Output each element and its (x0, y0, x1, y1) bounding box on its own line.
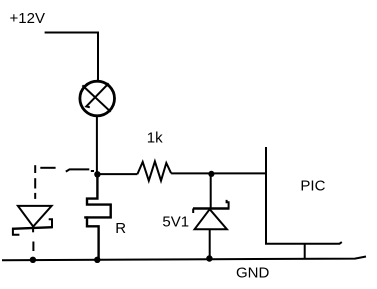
svg-text:1k: 1k (147, 130, 163, 147)
junction dot diode-ground (30, 257, 36, 263)
svg-text:5V1: 5V1 (162, 214, 189, 231)
zener diode D2 5V1 (193, 200, 230, 229)
junction dot zener-ground (206, 255, 212, 261)
wire node to resistor (97, 173, 137, 175)
svg-text:GND: GND (236, 265, 270, 282)
junction dot R-ground (94, 257, 100, 263)
dashed wire diode top (vertical) (34, 165, 36, 199)
diode lead stub (32, 227, 34, 233)
PIC block left edge (265, 147, 267, 244)
dashed wire diode to ground (32, 242, 34, 252)
wire +12V feed (45, 33, 98, 81)
node dot above zener (208, 171, 214, 177)
lamp L1 (80, 81, 115, 116)
PIC ground stub (304, 244, 306, 259)
svg-text:+12V: +12V (10, 10, 45, 27)
dashed wire node to diode (horizontal) (40, 168, 94, 172)
resistor R2 1k zigzag (137, 161, 171, 180)
svg-text:PIC: PIC (300, 178, 325, 195)
PIC block bottom edge (265, 242, 342, 244)
wire lamp to node (96, 116, 98, 174)
svg-text:R: R (115, 220, 126, 237)
wire node to zener (210, 174, 212, 208)
node junction dot (94, 171, 100, 177)
wire resistor to PIC (171, 172, 265, 174)
ground rail (2, 257, 366, 261)
TVS diode D1 (12, 206, 53, 235)
wire zener to ground (209, 229, 211, 258)
resistor R meander body (84, 174, 111, 217)
